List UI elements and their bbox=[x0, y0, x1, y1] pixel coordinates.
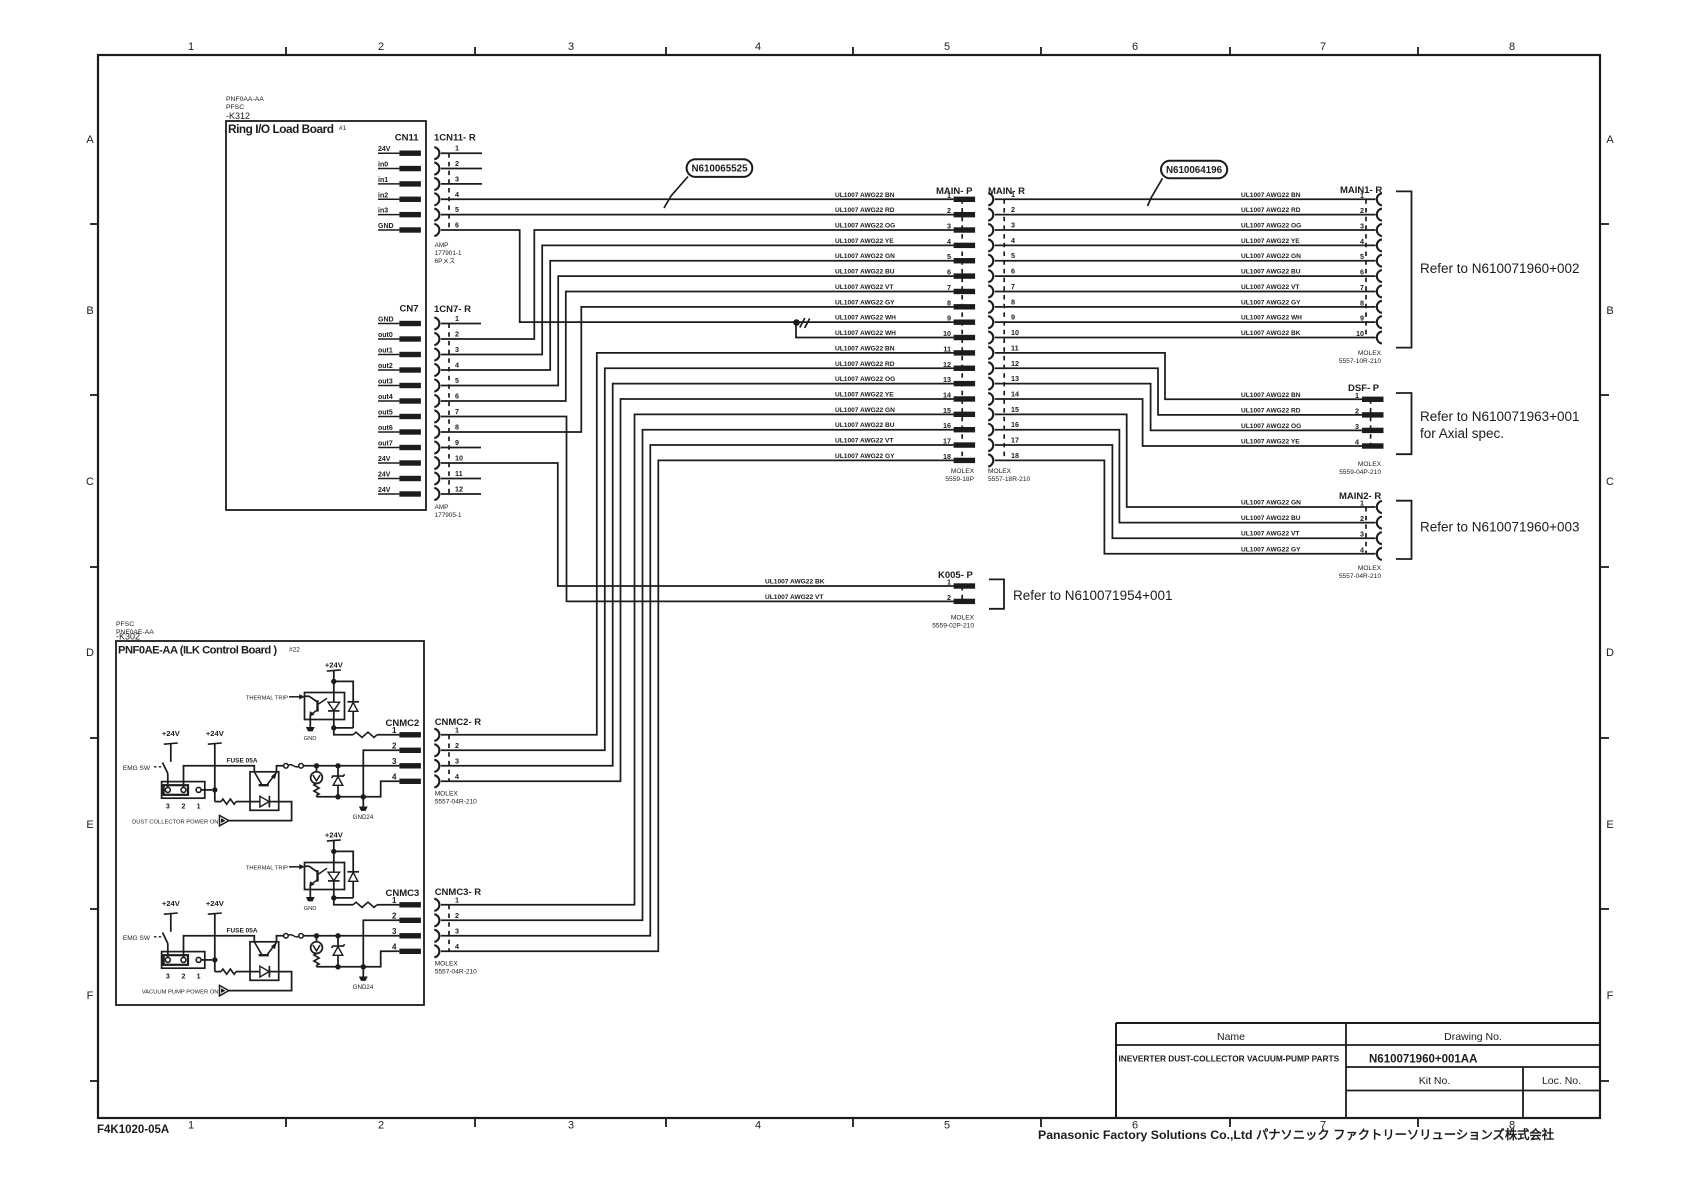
reference bracket DSF-P bbox=[1396, 393, 1412, 454]
svg-text:B: B bbox=[1606, 305, 1613, 317]
svg-text:1: 1 bbox=[455, 895, 459, 904]
connector CNMC2- R label bbox=[435, 717, 482, 728]
svg-text:UL1007 AWG22 WH: UL1007 AWG22 WH bbox=[1241, 315, 1302, 322]
wire MAIN-R pin8 to MAIN1-R pin8 bbox=[995, 306, 1376, 308]
junction dot rail zener bbox=[335, 794, 340, 799]
svg-text:E: E bbox=[86, 819, 93, 831]
svg-text:15: 15 bbox=[1011, 405, 1019, 414]
svg-text:UL1007 AWG22 OG: UL1007 AWG22 OG bbox=[1241, 223, 1301, 230]
connector MAIN-P pin 17 bbox=[943, 437, 975, 448]
note Refer to N610071963+001 for Axial spec. bbox=[1420, 409, 1580, 441]
wire terminal1 to +24V rail junction bbox=[201, 959, 212, 961]
optocoupler phototransistor (command) bbox=[254, 766, 284, 785]
svg-text:1: 1 bbox=[1360, 499, 1364, 508]
connector 1CN11-R pin numbers bbox=[455, 144, 459, 230]
optocoupler U-cmd box bbox=[250, 942, 279, 981]
wire label UL1007 AWG22 GN (MAIN1-R pin 5) bbox=[1241, 253, 1301, 260]
signal label THERMAL TRIP with arrow bbox=[246, 695, 305, 702]
wire MAIN-R pin5 to MAIN1-R pin5 bbox=[995, 260, 1376, 262]
svg-text:10: 10 bbox=[943, 329, 951, 338]
svg-text:UL1007 AWG22 GN: UL1007 AWG22 GN bbox=[835, 407, 895, 414]
svg-text:-K312: -K312 bbox=[226, 111, 250, 121]
connector MAIN-P pin 3 bbox=[947, 222, 975, 233]
wire label UL1007 AWG22 VT (MAIN-P pin 17) bbox=[835, 438, 893, 445]
ground GND24 bbox=[353, 967, 374, 991]
svg-text:UL1007 AWG22 VT: UL1007 AWG22 VT bbox=[835, 438, 893, 445]
connector DSF-P pin 1 bbox=[1355, 391, 1384, 402]
svg-text:N610064196: N610064196 bbox=[1166, 165, 1223, 176]
svg-text:GND: GND bbox=[378, 223, 394, 230]
svg-text:UL1007 AWG22 VT: UL1007 AWG22 VT bbox=[1241, 531, 1299, 538]
svg-text:10: 10 bbox=[1356, 329, 1364, 338]
resistor R-ind (below LED) bbox=[314, 954, 319, 966]
wire terminal1 to +24V rail junction bbox=[201, 789, 212, 791]
connector CNMC3- R label bbox=[435, 887, 482, 898]
svg-text:+24V: +24V bbox=[206, 729, 225, 738]
power +24V (relay contact) bbox=[206, 729, 225, 744]
svg-text:9: 9 bbox=[1360, 314, 1364, 323]
ground rail wire bbox=[317, 781, 400, 797]
wire fuse to CNMC pin3 bbox=[303, 935, 399, 937]
svg-text:3: 3 bbox=[392, 757, 397, 766]
svg-text:AMP: AMP bbox=[435, 504, 449, 511]
optocoupler LED (command, inside box) bbox=[250, 796, 279, 808]
connector MAIN-P pin 15 bbox=[943, 406, 975, 417]
svg-text:MOLEX: MOLEX bbox=[951, 615, 975, 622]
connector 1CN7-R contacts bbox=[434, 317, 439, 500]
svg-text:12: 12 bbox=[1011, 359, 1019, 368]
wire +24V to junction bbox=[333, 841, 335, 852]
wire CNMC2-R pin3 to MAIN-P pin13 bbox=[441, 384, 954, 766]
svg-text:6: 6 bbox=[1132, 41, 1138, 53]
svg-text:18: 18 bbox=[943, 452, 951, 461]
svg-text:MOLEX: MOLEX bbox=[951, 468, 975, 475]
svg-text:177901-1: 177901-1 bbox=[435, 250, 462, 257]
svg-text:UL1007 AWG22 GY: UL1007 AWG22 GY bbox=[835, 453, 895, 460]
terminal block TB 3-2-1 bbox=[162, 952, 205, 969]
svg-text:4: 4 bbox=[755, 1120, 761, 1132]
svg-text:3: 3 bbox=[568, 41, 574, 53]
svg-text:Name: Name bbox=[1217, 1031, 1245, 1043]
wire stub 1CN11-R pin 1 bbox=[441, 152, 482, 154]
svg-text:Loc. No.: Loc. No. bbox=[1542, 1075, 1581, 1087]
svg-text:Panasonic Factory Solutions Co: Panasonic Factory Solutions Co.,Ltd パナソニ… bbox=[1038, 1127, 1555, 1142]
svg-text:4: 4 bbox=[392, 942, 397, 951]
wire +24V relay contact down bbox=[214, 744, 216, 802]
balloon label N610065525 bbox=[687, 159, 753, 177]
svg-text:6: 6 bbox=[1360, 268, 1364, 277]
fuse F 0.5A bbox=[227, 757, 304, 768]
svg-text:MOLEX: MOLEX bbox=[1358, 461, 1382, 468]
svg-text:UL1007 AWG22 RD: UL1007 AWG22 RD bbox=[1241, 207, 1301, 214]
svg-text:AMP: AMP bbox=[435, 242, 449, 249]
wire 1CN7-R pin2 to MAIN-P pin3 bbox=[441, 230, 954, 339]
svg-text:1: 1 bbox=[197, 804, 201, 811]
svg-text:12: 12 bbox=[455, 485, 463, 494]
svg-text:11: 11 bbox=[455, 469, 463, 478]
wire label UL1007 AWG22 OG (DSF-P pin 3) bbox=[1241, 423, 1301, 430]
wire 1CN7-R pin7 to K005-P pin2 bbox=[441, 417, 954, 602]
svg-text:10: 10 bbox=[455, 454, 463, 463]
wire CNMC pin2 down to ground rail bbox=[363, 750, 399, 797]
wire label UL1007 AWG22 WH (MAIN-P pin 9) bbox=[835, 315, 896, 322]
wire +24V relay contact down bbox=[214, 914, 216, 972]
svg-text:18: 18 bbox=[1011, 451, 1019, 460]
connector CN11 pin in0 bbox=[378, 162, 421, 172]
connector K005-P part MOLEX 5559-02P-210 bbox=[932, 615, 974, 630]
wire MAIN-R pin16 to MAIN2-R pin2 bbox=[995, 430, 1376, 523]
svg-text:1: 1 bbox=[392, 896, 397, 905]
svg-text:UL1007 AWG22 BU: UL1007 AWG22 BU bbox=[1241, 515, 1301, 522]
svg-text:24V: 24V bbox=[378, 456, 391, 463]
junction dot terminal1 rail bbox=[212, 787, 217, 792]
svg-text:5: 5 bbox=[944, 1120, 950, 1132]
reference bracket MAIN1-R bbox=[1396, 191, 1412, 347]
svg-text:GND: GND bbox=[304, 906, 317, 912]
junction dot opto bottom bbox=[331, 895, 336, 900]
svg-text:CN11: CN11 bbox=[395, 133, 419, 144]
title block header Name bbox=[1217, 1031, 1245, 1043]
optocoupler U-trip box bbox=[305, 863, 345, 890]
wire label UL1007 AWG22 BU (MAIN-P pin 16) bbox=[835, 422, 895, 429]
svg-text:6: 6 bbox=[455, 221, 459, 230]
wire label UL1007 AWG22 YE (MAIN1-R pin 4) bbox=[1241, 238, 1300, 245]
connector CN7 pin out7 bbox=[378, 441, 421, 451]
wire MAIN-R pin6 to MAIN1-R pin6 bbox=[995, 275, 1376, 277]
svg-text:2: 2 bbox=[182, 804, 186, 811]
svg-text:4: 4 bbox=[755, 41, 761, 53]
svg-text:UL1007 AWG22 RD: UL1007 AWG22 RD bbox=[1241, 407, 1301, 414]
leader line N610064196 bbox=[1148, 178, 1163, 206]
wire label UL1007 AWG22 BU (MAIN2-R pin 2) bbox=[1241, 515, 1301, 522]
wire label UL1007 AWG22 YE (MAIN-P pin 14) bbox=[835, 391, 894, 398]
svg-text:UL1007 AWG22 BN: UL1007 AWG22 BN bbox=[835, 192, 895, 199]
connector CN7 pin 24V bbox=[378, 472, 421, 482]
svg-text:PFSC: PFSC bbox=[226, 104, 244, 111]
connector MAIN-P pin 9 bbox=[947, 314, 975, 325]
svg-text:24V: 24V bbox=[378, 472, 391, 479]
svg-text:DSF- P: DSF- P bbox=[1348, 383, 1380, 394]
svg-text:24V: 24V bbox=[378, 146, 391, 153]
wire stub 1CN11-R pin 2 bbox=[441, 168, 482, 170]
svg-text:2: 2 bbox=[1360, 206, 1364, 215]
connector MAIN-P pin 14 bbox=[943, 390, 975, 401]
wire 1CN7-R pin5 to MAIN-P pin6 bbox=[441, 276, 954, 385]
connector 1CN7-R dashed housing line bbox=[448, 324, 450, 495]
svg-text:5559-02P-210: 5559-02P-210 bbox=[932, 623, 974, 630]
drawing border frame bbox=[98, 55, 1600, 1118]
svg-text:3: 3 bbox=[1011, 221, 1015, 230]
ground GND (opto emitter) bbox=[304, 727, 317, 742]
svg-text:5: 5 bbox=[947, 252, 951, 261]
svg-text:UL1007 AWG22 BK: UL1007 AWG22 BK bbox=[1241, 330, 1301, 337]
svg-text:F: F bbox=[1607, 990, 1614, 1002]
svg-text:Refer to N610071960+003: Refer to N610071960+003 bbox=[1420, 520, 1580, 535]
connector MAIN1-R pin 9 bbox=[1360, 314, 1382, 329]
svg-text:3: 3 bbox=[1355, 422, 1359, 431]
svg-text:8: 8 bbox=[947, 298, 951, 307]
svg-text:UL1007 AWG22 WH: UL1007 AWG22 WH bbox=[835, 330, 896, 337]
wire branch to clamp diode bbox=[334, 851, 353, 871]
wire label UL1007 AWG22 GN (MAIN-P pin 5) bbox=[835, 253, 895, 260]
connector CN7 pin GND bbox=[378, 317, 421, 327]
svg-text:177905-1: 177905-1 bbox=[435, 512, 462, 519]
connector CN7 pin out5 bbox=[378, 410, 421, 420]
power +24V (thermal trip opto) bbox=[325, 661, 344, 672]
connector CNMC2- R part MOLEX 5557-04R-210 bbox=[435, 790, 477, 805]
svg-text:5559-04P-210: 5559-04P-210 bbox=[1339, 469, 1381, 476]
wire label UL1007 AWG22 BN (MAIN-P pin 1) bbox=[835, 192, 895, 199]
terminal block TB 3-2-1 bbox=[162, 782, 205, 799]
svg-text:2: 2 bbox=[455, 741, 459, 750]
svg-text:THERMAL TRIP: THERMAL TRIP bbox=[246, 866, 288, 872]
svg-text:UL1007 AWG22 VT: UL1007 AWG22 VT bbox=[1241, 284, 1299, 291]
wire CNMC pin2 down to ground rail bbox=[363, 920, 399, 967]
ground rail wire bbox=[317, 951, 400, 967]
junction dot white wires bbox=[793, 319, 800, 326]
svg-text:MAIN- P: MAIN- P bbox=[936, 186, 973, 197]
wire label UL1007 AWG22 YE (MAIN-P pin 4) bbox=[835, 238, 894, 245]
note Refer to N610071960+002 bbox=[1420, 261, 1580, 276]
svg-text:4: 4 bbox=[455, 190, 459, 199]
label EMG SW bbox=[123, 765, 163, 772]
svg-text:12: 12 bbox=[943, 360, 951, 369]
svg-text:#22: #22 bbox=[289, 647, 300, 654]
connector CN7 pin out3 bbox=[378, 379, 421, 389]
optocoupler LED (inside box) bbox=[328, 851, 340, 898]
wire label UL1007 AWG22 WH (MAIN-P pin 10) bbox=[835, 330, 896, 337]
wire LED resistor to rail bbox=[316, 966, 318, 967]
svg-text:UL1007 AWG22 OG: UL1007 AWG22 OG bbox=[835, 376, 895, 383]
connector MAIN-P label bbox=[936, 186, 973, 197]
connector CNMC2 pin 1 bbox=[392, 726, 421, 738]
svg-text:UL1007 AWG22 BU: UL1007 AWG22 BU bbox=[835, 422, 895, 429]
wire label UL1007 AWG22 GN (MAIN2-R pin 1) bbox=[1241, 500, 1301, 507]
connector CNMC2 pin 4 bbox=[392, 772, 421, 784]
wire label UL1007 AWG22 BK (K005-P pin 1) bbox=[765, 579, 825, 586]
svg-text:MOLEX: MOLEX bbox=[435, 960, 459, 967]
connector DSF-P pin 3 bbox=[1355, 422, 1384, 433]
wire MAIN-R pin13 to DSF-P pin3 bbox=[995, 384, 1362, 431]
svg-text:5557-18R-210: 5557-18R-210 bbox=[988, 476, 1030, 483]
connector 1CN7-R part AMP 177905-1 bbox=[435, 504, 462, 519]
connector CNMC3- R part MOLEX 5557-04R-210 bbox=[435, 960, 477, 975]
wire clamp diode to lower junction bbox=[334, 897, 353, 899]
svg-text:16: 16 bbox=[1011, 420, 1019, 429]
svg-text:5557-04R-210: 5557-04R-210 bbox=[1339, 573, 1381, 580]
svg-text:UL1007 AWG22 BN: UL1007 AWG22 BN bbox=[1241, 392, 1301, 399]
power +24V (EMG switch) bbox=[162, 729, 181, 744]
svg-text:3: 3 bbox=[455, 345, 459, 354]
ground GND24 bbox=[353, 797, 374, 821]
connector MAIN1-R pin 4 bbox=[1360, 237, 1382, 252]
svg-text:4: 4 bbox=[1360, 237, 1364, 246]
connector MAIN-P pin 5 bbox=[947, 252, 975, 263]
connector CN7 pin out0 bbox=[378, 332, 421, 342]
svg-text:1: 1 bbox=[188, 1120, 194, 1132]
connector MAIN1-R pin 2 bbox=[1360, 206, 1382, 221]
reference bracket MAIN2-R bbox=[1396, 501, 1412, 559]
svg-text:MOLEX: MOLEX bbox=[1358, 350, 1382, 357]
svg-text:Refer to N610071954+001: Refer to N610071954+001 bbox=[1013, 588, 1173, 603]
connector CN7 pin out6 bbox=[378, 425, 421, 435]
wire 1CN7-R pin8 to MAIN-P pin8 bbox=[441, 307, 954, 432]
svg-text:UL1007 AWG22 GN: UL1007 AWG22 GN bbox=[1241, 253, 1301, 260]
wire label UL1007 AWG22 VT (MAIN2-R pin 3) bbox=[1241, 531, 1299, 538]
wire MAIN-R pin11 to DSF-P pin1 bbox=[995, 353, 1362, 399]
connector CN7 pin out4 bbox=[378, 394, 421, 404]
svg-text:8: 8 bbox=[1509, 41, 1515, 53]
svg-text:7: 7 bbox=[1320, 41, 1326, 53]
connector K005-P label bbox=[938, 570, 974, 581]
connector MAIN-P pin 11 bbox=[943, 344, 975, 355]
wire label UL1007 AWG22 VT (MAIN-P pin 7) bbox=[835, 284, 893, 291]
wire stub 1CN7-R pin 11 bbox=[441, 478, 481, 480]
svg-text:16: 16 bbox=[943, 421, 951, 430]
wire label UL1007 AWG22 BU (MAIN1-R pin 6) bbox=[1241, 269, 1301, 276]
zone column ticks top edge bbox=[286, 47, 1418, 55]
svg-text:FUSE 05A: FUSE 05A bbox=[227, 757, 258, 764]
svg-text:-K302: -K302 bbox=[116, 632, 140, 642]
svg-text:out4: out4 bbox=[378, 394, 393, 401]
svg-text:10: 10 bbox=[1011, 328, 1019, 337]
junction dot opto top bbox=[331, 849, 336, 854]
wire CNMC2-R pin2 to MAIN-P pin12 bbox=[441, 368, 954, 750]
svg-text:3: 3 bbox=[947, 222, 951, 231]
svg-text:1: 1 bbox=[1360, 191, 1364, 200]
Ring I/O Load Board outline -K312 bbox=[226, 121, 426, 510]
wire label UL1007 AWG22 RD (MAIN-P pin 2) bbox=[835, 207, 895, 214]
connector K005-P pin 1 bbox=[947, 578, 975, 589]
wire CNMC2-R pin1 to MAIN-P pin11 bbox=[441, 353, 954, 735]
svg-text:UL1007 AWG22 OG: UL1007 AWG22 OG bbox=[1241, 423, 1301, 430]
svg-text:11: 11 bbox=[943, 344, 951, 353]
format number F4K1020-05A bbox=[97, 1124, 169, 1136]
svg-text:UL1007 AWG22 GY: UL1007 AWG22 GY bbox=[835, 299, 895, 306]
svg-text:+24V: +24V bbox=[325, 831, 344, 840]
svg-text:17: 17 bbox=[943, 437, 951, 446]
diode D-clamp (right of opto) bbox=[347, 872, 359, 898]
wire opto LED cathode loop to power-on buffer bbox=[229, 972, 292, 991]
connector CN11 pin in2 bbox=[378, 192, 421, 202]
signal label THERMAL TRIP with arrow bbox=[246, 865, 305, 872]
svg-text:2: 2 bbox=[392, 911, 397, 920]
svg-text:9: 9 bbox=[455, 438, 459, 447]
wire junction branch to MAIN-P pin10 bbox=[796, 322, 954, 337]
optocoupler phototransistor (command) bbox=[254, 936, 284, 955]
svg-text:out1: out1 bbox=[378, 348, 393, 355]
svg-text:VACUUM PUMP POWER ON: VACUUM PUMP POWER ON bbox=[142, 989, 219, 995]
svg-text:2: 2 bbox=[1355, 406, 1359, 415]
svg-text:5559-18P: 5559-18P bbox=[945, 476, 974, 483]
optocoupler phototransistor (thermal trip) bbox=[305, 866, 328, 897]
svg-text:UL1007 AWG22 VT: UL1007 AWG22 VT bbox=[765, 594, 823, 601]
connector 1CN11-R contacts bbox=[434, 147, 439, 236]
board designator PFSC / PNF0AE-AA / -K302 bbox=[116, 621, 154, 642]
svg-text:4: 4 bbox=[392, 772, 397, 781]
svg-text:5: 5 bbox=[455, 376, 459, 385]
title block header Loc. No. bbox=[1542, 1075, 1581, 1087]
board title PNF0AE-AA (ILK Control Board) #22 bbox=[118, 645, 300, 657]
svg-text:3: 3 bbox=[392, 927, 397, 936]
wire MAIN-R pin12 to DSF-P pin2 bbox=[995, 368, 1362, 415]
connector CN11 pin 24V bbox=[378, 146, 421, 156]
label VACUUM PUMP POWER ON bbox=[142, 989, 219, 995]
svg-text:3: 3 bbox=[1360, 222, 1364, 231]
wire label UL1007 AWG22 OG (MAIN-P pin 13) bbox=[835, 376, 895, 383]
optocoupler LED (inside box) bbox=[328, 681, 340, 728]
connector MAIN1-R pin 5 bbox=[1360, 252, 1382, 267]
power +24V (thermal trip opto) bbox=[325, 831, 344, 842]
connector DSF-P pin 2 bbox=[1355, 406, 1384, 417]
junction dot opto bottom bbox=[331, 725, 336, 730]
svg-text:for Axial spec.: for Axial spec. bbox=[1420, 426, 1504, 441]
svg-text:3: 3 bbox=[166, 804, 170, 811]
wire label UL1007 AWG22 OG (MAIN-P pin 3) bbox=[835, 223, 895, 230]
svg-text:4: 4 bbox=[1355, 438, 1359, 447]
svg-text:D: D bbox=[86, 647, 94, 659]
svg-text:3: 3 bbox=[166, 974, 170, 981]
terminal block pin numbers 3 2 1 bbox=[166, 974, 201, 981]
svg-text:GND24: GND24 bbox=[353, 984, 374, 991]
svg-text:UL1007 AWG22 BU: UL1007 AWG22 BU bbox=[1241, 269, 1301, 276]
svg-text:4: 4 bbox=[455, 361, 459, 370]
svg-text:4: 4 bbox=[455, 772, 459, 781]
svg-text:1: 1 bbox=[455, 144, 459, 153]
svg-text:MOLEX: MOLEX bbox=[435, 790, 459, 797]
wire stub 1CN7-R pin 12 bbox=[441, 493, 481, 495]
svg-text:1: 1 bbox=[1011, 190, 1015, 199]
connector CN7 pin 24V bbox=[378, 456, 421, 466]
svg-text:5557-10R-210: 5557-10R-210 bbox=[1339, 358, 1381, 365]
svg-text:5: 5 bbox=[455, 205, 459, 214]
connector MAIN-R pin numbers bbox=[1011, 190, 1019, 460]
balloon label N610064196 bbox=[1161, 161, 1227, 179]
wire MAIN-R pin15 to MAIN2-R pin1 bbox=[995, 414, 1376, 507]
svg-text:5: 5 bbox=[1360, 252, 1364, 261]
svg-text:8: 8 bbox=[1360, 298, 1364, 307]
svg-text:EMG SW: EMG SW bbox=[123, 765, 151, 772]
junction dot LED indicator top bbox=[314, 763, 319, 768]
board designator PNF0AA-AA / PFSC / -K312 bbox=[226, 96, 264, 121]
svg-text:1CN11- R: 1CN11- R bbox=[434, 133, 476, 144]
zone row ticks left edge bbox=[90, 224, 98, 1081]
svg-text:1: 1 bbox=[188, 41, 194, 53]
svg-text:5557-04R-210: 5557-04R-210 bbox=[435, 968, 477, 975]
connector CN7 pin out1 bbox=[378, 348, 421, 358]
connector 1CN7-R pin numbers bbox=[455, 314, 463, 494]
wire stub 1CN7-R pin 1 bbox=[441, 323, 481, 325]
wire label UL1007 AWG22 GY (MAIN1-R pin 8) bbox=[1241, 299, 1301, 306]
connector K005-P pin 2 bbox=[947, 593, 975, 604]
connector CN11 label bbox=[395, 133, 419, 144]
wire terminal2 riser to opto collector bbox=[184, 936, 255, 958]
connector CNMC2 pin 2 bbox=[392, 741, 421, 753]
svg-text:7: 7 bbox=[947, 283, 951, 292]
connector MAIN-P pin 16 bbox=[943, 421, 975, 432]
title block header Drawing No. bbox=[1444, 1031, 1502, 1043]
connector MAIN-P pin 13 bbox=[943, 375, 975, 386]
svg-text:Refer to N610071963+001: Refer to N610071963+001 bbox=[1420, 409, 1580, 424]
junction dot terminal1 rail bbox=[212, 957, 217, 962]
svg-text:UL1007 AWG22 GN: UL1007 AWG22 GN bbox=[835, 253, 895, 260]
connector MAIN-P pin 10 bbox=[943, 329, 975, 340]
svg-text:2: 2 bbox=[947, 593, 951, 602]
wire +24V to junction bbox=[333, 671, 335, 682]
svg-text:out5: out5 bbox=[378, 410, 393, 417]
svg-text:8: 8 bbox=[1011, 297, 1015, 306]
resistor R-pullup bbox=[353, 732, 377, 737]
